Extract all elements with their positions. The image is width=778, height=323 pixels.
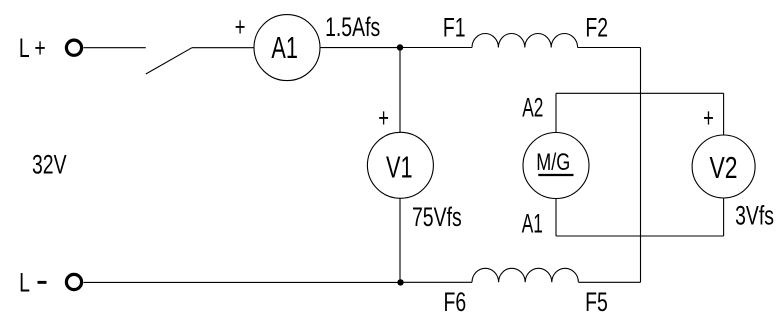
- svg-text:L: L: [19, 267, 30, 297]
- wire L+ to switch: [84, 47, 146, 49]
- wire box bottom: [556, 235, 724, 237]
- svg-text:75Vfs: 75Vfs: [412, 202, 462, 232]
- svg-text:V2: V2: [710, 150, 738, 185]
- svg-text:32V: 32V: [32, 149, 67, 179]
- voltmeter V1: [367, 132, 433, 198]
- inductor F6-F5 field winding: [472, 268, 578, 282]
- svg-text:A1: A1: [522, 208, 543, 239]
- wire node to V1: [399, 48, 401, 133]
- svg-text:1.5Afs: 1.5Afs: [325, 12, 380, 42]
- wire F6 to bottom node: [400, 281, 472, 283]
- wire bottom corner to F5: [579, 281, 641, 283]
- svg-text:F2: F2: [585, 12, 608, 42]
- wire right vertical F2 to F5: [640, 48, 642, 283]
- voltmeter V2: [692, 135, 755, 198]
- svg-text:+: +: [703, 102, 714, 132]
- wire F2 to right corner: [578, 47, 641, 49]
- svg-text:F6: F6: [444, 287, 467, 317]
- wire V2 to box bottom: [723, 198, 725, 236]
- node bottom junction: [397, 279, 403, 285]
- svg-text:+: +: [378, 102, 389, 132]
- wire box right upper to V2: [723, 93, 725, 135]
- inductor F1-F2 field winding: [472, 33, 578, 47]
- svg-text:V1: V1: [386, 150, 413, 185]
- label L minus dash: [38, 281, 47, 284]
- svg-text:+: +: [235, 11, 246, 41]
- svg-text:F1: F1: [443, 12, 466, 42]
- wire armature top A2 to box corner: [555, 93, 557, 132]
- wire V1 to bottom node: [399, 198, 401, 282]
- wire box bottom to armature A1: [555, 199, 557, 237]
- wire bottom node to L-: [84, 281, 401, 283]
- svg-text:A2: A2: [522, 91, 543, 122]
- svg-text:3Vfs: 3Vfs: [735, 200, 774, 230]
- wire switch to A1: [192, 47, 254, 49]
- svg-text:M/G: M/G: [536, 150, 570, 176]
- svg-text:A1: A1: [271, 30, 298, 65]
- node top junction: [397, 44, 403, 50]
- terminal L-: [66, 274, 81, 289]
- motor-generator M/G: [523, 133, 589, 199]
- M/G underline: [538, 174, 573, 176]
- wire A1 to node: [320, 47, 400, 49]
- terminal L+: [66, 40, 81, 55]
- ammeter A1: [254, 15, 320, 81]
- svg-text:L +: L +: [19, 33, 46, 63]
- wire box top: [556, 92, 724, 94]
- wire node to F1: [400, 47, 472, 49]
- switch S1 blade: [146, 48, 192, 74]
- svg-text:F5: F5: [585, 287, 608, 317]
